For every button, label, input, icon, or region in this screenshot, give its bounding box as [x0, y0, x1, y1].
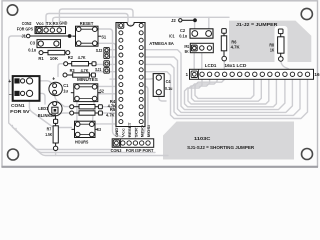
wire trace S2 to S3 right [93, 100, 95, 121]
svg-text:MISO: MISO [140, 125, 145, 137]
svg-text:GND: GND [59, 21, 67, 26]
svg-text:FOR 5V: FOR 5V [10, 109, 29, 114]
svg-text:4.7K: 4.7K [78, 55, 87, 60]
svg-text:RESET: RESET [127, 122, 132, 137]
preset VR1 header [190, 43, 213, 52]
wire trace IC pin to R2 [96, 63, 118, 65]
svg-text:−: − [9, 92, 12, 98]
mounting hole bottom-right [302, 149, 313, 160]
wire trace CON1 bottom diagonal 3 [16, 129, 168, 156]
svg-text:LED1: LED1 [38, 106, 49, 111]
svg-text:1.5K: 1.5K [45, 132, 53, 137]
svg-text:1u: 1u [63, 88, 68, 93]
switch S1 (reset) [76, 26, 99, 46]
svg-text:LCD1: LCD1 [205, 63, 217, 68]
svg-text:CON3: CON3 [111, 148, 122, 153]
wire trace bus IC pin14 to LCD16 [142, 72, 308, 119]
wire trace IC pin to R3 [96, 71, 119, 73]
wire trace S3 to IC pin [95, 122, 119, 125]
plane cutout R8 [275, 26, 288, 65]
wire trace CON1 row2 right [33, 93, 45, 104]
svg-text:C4: C4 [166, 79, 172, 84]
copper plane top-right [229, 21, 311, 62]
svg-text:S1: S1 [101, 34, 107, 39]
wire trace bus IC pin11 to LCD13 [142, 50, 285, 110]
wire trace C1 to R4 [55, 94, 70, 106]
svg-text:C3: C3 [30, 40, 36, 45]
resistor R8 [278, 29, 283, 34]
jumper J1 wire [30, 35, 68, 37]
wire trace C2 pad stub 1 [194, 17, 196, 30]
wire trace J1 left edge down [9, 36, 112, 150]
wire trace R7 bottom stub [55, 150, 57, 156]
wire trace CON2 TX to right bus [53, 17, 229, 27]
svg-text:C1: C1 [63, 83, 69, 88]
svg-text:CON2: CON2 [22, 21, 32, 26]
svg-text:RX: RX [53, 21, 59, 26]
IC socket IC1 DIP-28 [116, 23, 145, 127]
svg-text:Vcc: Vcc [121, 127, 126, 137]
board outline [2, 1, 318, 167]
svg-text:J1: J1 [22, 34, 27, 39]
svg-text:R2: R2 [68, 55, 74, 60]
connector CON3 (ISP) 6-pin [112, 139, 154, 148]
resistor R4 [70, 105, 74, 109]
svg-text:0.1u: 0.1u [28, 47, 36, 52]
svg-text:S2: S2 [99, 88, 104, 93]
svg-text:5K: 5K [185, 49, 189, 54]
wire trace R5 left to LED area [58, 113, 72, 116]
svg-text:1103C: 1103C [194, 136, 211, 141]
svg-text:J1-J2 = JUMPER: J1-J2 = JUMPER [236, 22, 278, 27]
capacitor C1 [49, 82, 62, 95]
wire trace IC pin row to SJ2 a [110, 49, 119, 51]
wire trace C2 pad stub 2 [208, 17, 210, 30]
wire trace CON1 to S3 [29, 97, 71, 128]
svg-text:MINUTES: MINUTES [77, 77, 98, 82]
wire trace CON1 to C1 [33, 81, 52, 84]
jumper SJ1 pads [104, 61, 110, 67]
svg-text:R1: R1 [38, 56, 44, 61]
svg-text:0.1u: 0.1u [179, 33, 187, 38]
mounting hole top-right [301, 8, 312, 19]
wire trace R2 left down to C1 [58, 64, 66, 77]
wire trace CON2 RX upper bus [59, 9, 133, 27]
resistor R6 [222, 29, 227, 34]
svg-text:FOR GPS: FOR GPS [17, 27, 33, 32]
wire trace S1 to ISP GND [95, 29, 115, 136]
wire trace R6 to LCD5 [223, 61, 225, 71]
wire trace IC pin to S2 bottom [97, 94, 119, 96]
svg-text:SJ2: SJ2 [96, 48, 103, 53]
wire LED1 to R7 [54, 116, 56, 119]
svg-text:IC1: IC1 [169, 34, 175, 39]
svg-text:S3: S3 [97, 127, 102, 132]
svg-text:CON1: CON1 [11, 103, 25, 108]
wire trace IC pin row 8 [110, 78, 119, 80]
svg-text:ATMEGA 8A: ATMEGA 8A [149, 41, 174, 46]
wire trace inside IC socket [130, 25, 132, 121]
wire trace ISP SCK stub [134, 122, 136, 138]
svg-text:BLINKER: BLINKER [38, 113, 57, 118]
wire trace R5 to IC pin [102, 113, 119, 116]
wire trace IC to ISP MISO [142, 94, 145, 136]
wire trace IC to C4 [142, 78, 155, 79]
wire trace bus IC pin12 to LCD14 [142, 57, 293, 112]
svg-text:16: 16 [314, 72, 320, 77]
wire trace bus LCD4 to LCD10 [192, 79, 262, 101]
resistor R2 [64, 62, 68, 66]
LED LED1 [48, 102, 62, 116]
capacitor C2 [190, 29, 213, 38]
resistor R1 [39, 51, 43, 55]
svg-text:SJ1: SJ1 [95, 67, 102, 72]
wire trace S2 to S3 left [76, 100, 78, 121]
wire trace ISP RESET to IC [129, 122, 130, 138]
svg-text:10K: 10K [50, 56, 59, 61]
svg-text:R3: R3 [70, 68, 76, 73]
wire trace bus LCD2 to LCD12 [185, 79, 277, 107]
svg-text:TX: TX [46, 21, 52, 26]
svg-text:SJ1-SJ2 = SHORTING JUMPER: SJ1-SJ2 = SHORTING JUMPER [187, 145, 255, 150]
wire trace IC pin to S2 top [97, 85, 119, 87]
svg-text:FOR ISP PORT: FOR ISP PORT [126, 148, 154, 153]
wire trace IC pin row to SJ2 b [110, 56, 119, 58]
wire trace VR1 pin2 down [201, 50, 203, 71]
svg-text:SCK: SCK [133, 127, 138, 137]
plane cutout R6 [218, 26, 230, 64]
svg-text:+: + [8, 79, 11, 85]
svg-text:4.7K: 4.7K [81, 68, 90, 73]
mounting hole bottom-left [8, 149, 19, 160]
wire trace C4 bottom stub [159, 93, 166, 101]
svg-text:RESET: RESET [80, 21, 94, 26]
wire trace VR1 pin1 down [193, 51, 195, 71]
connector CON2 (GPS header) [35, 27, 66, 34]
wire trace J2 stub [194, 17, 196, 20]
capacitor C3 [37, 40, 61, 48]
svg-text:GND: GND [114, 127, 119, 137]
wire trace bus IC pin13 to LCD15 [142, 64, 301, 115]
svg-text:0.1u: 0.1u [165, 86, 173, 91]
jumper SJ2 pads [104, 47, 110, 53]
board outline bottom edge [2, 166, 319, 168]
wire trace bus LCD3 to LCD11 [188, 79, 269, 104]
capacitor C4 [153, 74, 164, 97]
svg-text:4.7K: 4.7K [106, 112, 115, 117]
wire trace IC to ISP MOSI [142, 86, 148, 136]
resistor R5 [70, 111, 74, 115]
wire trace J1 dot to S1 [70, 35, 76, 37]
wire trace bus LCD5 to LCD9 [195, 79, 254, 98]
jumper J2 wire [182, 19, 193, 21]
svg-text:16x1 LCD: 16x1 LCD [224, 63, 246, 68]
connector LCD1 16-pin [190, 69, 314, 79]
svg-text:J2: J2 [171, 18, 176, 23]
wire trace S1 to ISP Vcc [95, 43, 122, 137]
svg-text:HOURS: HOURS [75, 140, 88, 145]
svg-text:MOSI: MOSI [146, 125, 151, 137]
svg-text:Vcc: Vcc [36, 21, 44, 26]
wire trace CON2 Vcc to IC top [46, 14, 128, 28]
resistor R7 [54, 119, 58, 123]
resistor R3 [63, 73, 67, 77]
wire trace R8 to LCD14 [281, 61, 291, 73]
svg-text:4.7K: 4.7K [231, 45, 240, 50]
svg-text:1K: 1K [270, 47, 274, 52]
switch S3 (hours) [75, 121, 96, 137]
mounting hole top-left [7, 5, 17, 15]
connector CON1 (5V power) [13, 76, 40, 101]
wire trace CON1 bottom diagonal 2 [12, 126, 155, 153]
copper plane bottom block [163, 122, 294, 160]
svg-text:+: + [52, 76, 55, 82]
wire trace R4 to IC pin [102, 107, 119, 109]
switch S2 (minutes) [74, 84, 98, 102]
